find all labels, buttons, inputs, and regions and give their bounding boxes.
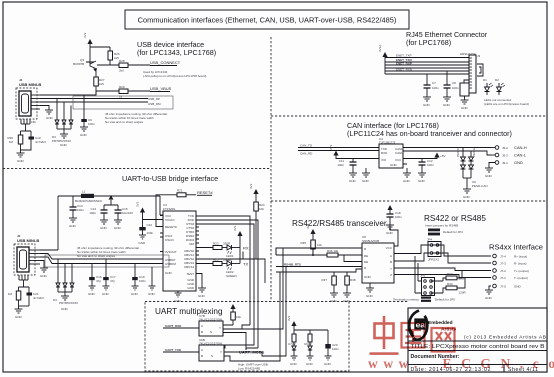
svg-text:ENET_RXN: ENET_RXN bbox=[396, 67, 412, 71]
shield stub J2 bbox=[19, 275, 28, 287]
svg-text:CAN_TD: CAN_TD bbox=[300, 144, 313, 148]
svg-text:Y: Y bbox=[220, 350, 222, 354]
svg-text:GND: GND bbox=[165, 271, 173, 275]
wire TEST to gnd bbox=[196, 274, 202, 289]
svg-text:GND: GND bbox=[114, 226, 122, 230]
svg-text:R+ (input): R+ (input) bbox=[514, 255, 527, 259]
svg-text:A: A bbox=[201, 324, 203, 328]
power 3V3 led bbox=[233, 225, 243, 247]
svg-text:J7-3: J7-3 bbox=[500, 262, 506, 266]
svg-text:GND: GND bbox=[69, 224, 77, 228]
wire ENET_RXN bbox=[385, 67, 469, 69]
title row bbox=[411, 344, 546, 350]
svg-text:CAN_RD: CAN_RD bbox=[300, 152, 313, 156]
svg-text:GND: GND bbox=[148, 292, 156, 296]
svg-text:3V3: 3V3 bbox=[329, 144, 333, 150]
svg-text:3V3: 3V3 bbox=[136, 201, 140, 207]
svg-text:BLM21PG600SN1D: BLM21PG600SN1D bbox=[75, 199, 103, 203]
svg-text:100n: 100n bbox=[89, 211, 96, 215]
watermark url text bbox=[368, 356, 554, 371]
power 3V3 mux bbox=[230, 304, 235, 312]
svg-text:GND: GND bbox=[40, 274, 48, 278]
note impedance routing bbox=[105, 112, 168, 124]
svg-text:R33: R33 bbox=[447, 272, 453, 276]
char wang bbox=[432, 328, 455, 352]
svg-text:100n: 100n bbox=[432, 86, 439, 90]
wire pin4 to gnd bbox=[40, 106, 49, 111]
svg-text:GND: GND bbox=[485, 296, 493, 300]
power 5V can bbox=[403, 153, 445, 159]
wire B to JP4 bbox=[394, 253, 438, 261]
node RS485_RTS bbox=[276, 263, 362, 267]
svg-text:U6A2: U6A2 bbox=[304, 342, 312, 346]
wire shield split J2 bbox=[19, 287, 30, 291]
capacitor C7 bbox=[424, 74, 440, 97]
wire mux2 connections bbox=[224, 272, 280, 361]
svg-text:R28: R28 bbox=[119, 59, 125, 63]
wire UART_RXD bbox=[163, 324, 199, 328]
svg-text:GND: GND bbox=[17, 159, 25, 163]
svg-text:4n7/2kV: 4n7/2kV bbox=[35, 140, 46, 144]
resistor R35 bbox=[300, 240, 322, 255]
node USB_VBUS bbox=[150, 86, 172, 92]
svg-text:GND: GND bbox=[390, 163, 398, 167]
capacitor C14 bbox=[89, 205, 107, 220]
resistor R27 bbox=[94, 69, 105, 95]
resistor R28 bbox=[119, 59, 128, 73]
resistor R33 termination bbox=[443, 271, 467, 282]
svg-text:100n: 100n bbox=[77, 208, 84, 212]
char guo bbox=[402, 323, 425, 348]
svg-text:No vias and no sharp angles: No vias and no sharp angles bbox=[77, 254, 116, 258]
ground C7 bbox=[423, 97, 431, 107]
svg-text:FT232RL: FT232RL bbox=[163, 207, 176, 211]
wire vcc to U8 bbox=[390, 225, 398, 246]
ground C8 bbox=[443, 97, 451, 107]
svg-text:GND: GND bbox=[60, 143, 68, 147]
svg-text:GND: GND bbox=[349, 179, 357, 183]
svg-text:GND: GND bbox=[386, 231, 394, 235]
ground U8 bbox=[366, 283, 374, 298]
section title RS422 or RS485 bbox=[424, 214, 486, 228]
ground C11 bbox=[349, 173, 357, 183]
watermark bbox=[370, 316, 455, 355]
svg-text:T- (output): T- (output) bbox=[514, 276, 528, 280]
svg-text:47p: 47p bbox=[96, 279, 101, 283]
capacitor C12 bbox=[419, 159, 435, 174]
power 3V3 pullups bbox=[287, 315, 328, 330]
svg-text:VCCIO: VCCIO bbox=[165, 218, 175, 222]
ground C12 bbox=[418, 173, 426, 183]
wire JP5 row1 bbox=[418, 263, 443, 281]
resistor R26 bbox=[90, 47, 120, 65]
svg-text:3V3: 3V3 bbox=[233, 225, 237, 231]
svg-text:J5-3: J5-3 bbox=[502, 154, 508, 158]
svg-text:Y: Y bbox=[390, 267, 392, 271]
svg-text:R34: R34 bbox=[447, 282, 453, 286]
header pin J5-2 CAN-H bbox=[491, 145, 527, 150]
ground J5 bbox=[485, 168, 493, 178]
svg-text:100n: 100n bbox=[147, 231, 154, 235]
wire R+ output bbox=[438, 245, 492, 256]
svg-text:S: S bbox=[210, 330, 212, 334]
svg-text:100n: 100n bbox=[332, 347, 339, 351]
svg-text:Z: Z bbox=[390, 273, 392, 277]
svg-text:3V3: 3V3 bbox=[83, 32, 87, 38]
capacitor C8 bbox=[444, 71, 460, 97]
resistor network U7A bbox=[288, 330, 296, 356]
power vcc pullup cbus bbox=[249, 183, 259, 202]
svg-text:Insert jumpers for RS485: Insert jumpers for RS485 bbox=[425, 224, 459, 228]
wire D+ to bus bbox=[40, 101, 76, 103]
FTDI U3 FT232RL bbox=[160, 203, 199, 291]
ground U6A bbox=[306, 356, 314, 366]
impedance matched bus box bbox=[73, 96, 173, 109]
svg-text:(LEDs are on LPCXpresso board): (LEDs are on LPCXpresso board) bbox=[484, 102, 529, 106]
svg-text:R29: R29 bbox=[119, 85, 125, 89]
wire mux1 inputs bbox=[223, 325, 250, 350]
svg-text:B: B bbox=[390, 260, 392, 264]
capacitor C22 bbox=[139, 223, 153, 235]
svg-text:E C G N . c o m: E C G N . c o m bbox=[443, 356, 554, 371]
svg-text:RS422 or RS485: RS422 or RS485 bbox=[424, 214, 486, 223]
power 3V3 can bbox=[329, 144, 379, 158]
section divider horizontal usb/uart bbox=[3, 168, 271, 170]
svg-text:UART-to-USB bridge interface: UART-to-USB bridge interface bbox=[122, 174, 218, 183]
resistor R22 bbox=[8, 291, 21, 306]
capacitor C10 bbox=[21, 135, 47, 150]
ground R38 bbox=[343, 293, 351, 303]
note mux modes bbox=[238, 363, 268, 371]
svg-text:J7-4: J7-4 bbox=[500, 255, 506, 259]
mux U6B bbox=[199, 338, 224, 361]
wire R- output bbox=[438, 253, 492, 263]
svg-text:RI#: RI# bbox=[189, 242, 194, 246]
ground U4 pin8 bbox=[403, 168, 411, 183]
wire D- to bus bbox=[40, 98, 76, 100]
svg-text:1M: 1M bbox=[9, 140, 14, 144]
svg-text:UART_TXD: UART_TXD bbox=[165, 348, 182, 352]
svg-text:Low: RS422/485: Low: RS422/485 bbox=[238, 367, 261, 371]
wire UART_TXD bbox=[163, 348, 199, 352]
svg-text:GND: GND bbox=[485, 174, 493, 178]
svg-text:PRTR5V0X2X: PRTR5V0X2X bbox=[59, 301, 78, 305]
svg-text:PESD1: PESD1 bbox=[456, 147, 460, 157]
svg-text:J7-2: J7-2 bbox=[500, 269, 506, 273]
ground J2 bbox=[40, 268, 48, 278]
svg-text:D1: D1 bbox=[483, 78, 487, 82]
svg-text:GND: GND bbox=[139, 241, 147, 245]
ground C18 bbox=[386, 225, 394, 235]
wire JP5 row3 bbox=[415, 256, 443, 293]
ferrite bead L1 bbox=[58, 190, 163, 216]
wire usb dp to chip bbox=[40, 254, 163, 260]
resistor R37 bbox=[321, 272, 336, 293]
svg-text:1M: 1M bbox=[8, 292, 13, 296]
wire ENET_TXN bbox=[385, 58, 469, 62]
capacitor C20 bbox=[325, 330, 339, 356]
svg-text:GND: GND bbox=[198, 294, 206, 298]
svg-text:3V3: 3V3 bbox=[249, 183, 253, 189]
ground shield J2 bbox=[15, 306, 23, 319]
wire cbus2 run bbox=[196, 240, 265, 283]
svg-text:4n7/2kV: 4n7/2kV bbox=[33, 296, 44, 300]
wire VBUS run bbox=[96, 90, 119, 92]
svg-text:3V3OUT: 3V3OUT bbox=[165, 250, 177, 254]
wire VBUS from pin1 bbox=[40, 91, 96, 95]
resistor R36 inline bbox=[327, 249, 362, 262]
LED D1 bbox=[483, 78, 493, 95]
svg-text:No vias and no sharp angles: No vias and no sharp angles bbox=[105, 120, 144, 124]
title banner box bbox=[125, 10, 409, 29]
capacitor C17 bbox=[103, 259, 116, 286]
svg-text:BC807B: BC807B bbox=[73, 62, 84, 66]
svg-text:OSCO: OSCO bbox=[165, 238, 175, 242]
svg-text:SN65HVD35: SN65HVD35 bbox=[362, 239, 380, 243]
wire CANL to header bbox=[403, 151, 491, 155]
svg-text:R36 10k: R36 10k bbox=[327, 249, 339, 253]
resistor R30 bbox=[7, 135, 22, 150]
wire Z to T- bbox=[394, 275, 491, 278]
svg-text:R37: R37 bbox=[321, 278, 327, 282]
svg-text:(LPC11C24 has on-board trancei: (LPC11C24 has on-board tranceiver and co… bbox=[347, 129, 512, 138]
section title RS4xx Interface bbox=[489, 243, 543, 252]
svg-text:USB MINI-B: USB MINI-B bbox=[19, 82, 41, 87]
jumper header JP4 bbox=[427, 238, 441, 262]
ground C19 bbox=[131, 286, 139, 296]
svg-text:GND: GND bbox=[46, 116, 54, 120]
resistor network U6A bbox=[304, 330, 312, 356]
title block frame bbox=[408, 308, 547, 372]
svg-text:120R: 120R bbox=[459, 291, 467, 295]
svg-text:Y: Y bbox=[219, 326, 221, 330]
shield stub of J4 bbox=[21, 119, 36, 131]
svg-text:w w w .: w w w . bbox=[368, 356, 418, 371]
svg-text:UART_RXD: UART_RXD bbox=[165, 324, 182, 328]
header pin J7-5 GND bbox=[489, 284, 522, 290]
section title USB device interface bbox=[137, 40, 216, 57]
svg-text:B: B bbox=[201, 330, 203, 334]
ground ESD bbox=[60, 134, 68, 147]
ground shield bbox=[17, 150, 25, 163]
svg-text:GND: GND bbox=[324, 362, 332, 366]
wire rs485 rx bbox=[276, 247, 362, 249]
svg-text:RXD: RXD bbox=[381, 151, 388, 155]
svg-text:10k: 10k bbox=[317, 243, 322, 247]
section title CAN interface bbox=[347, 121, 512, 138]
svg-text:RS485_RTS: RS485_RTS bbox=[284, 263, 301, 267]
wire Y to T+ bbox=[394, 268, 491, 271]
svg-text:PESD-CAN: PESD-CAN bbox=[472, 184, 488, 188]
LED D2 bbox=[495, 78, 505, 95]
ground U7A bbox=[290, 356, 298, 366]
svg-text:J5-2: J5-2 bbox=[502, 146, 508, 150]
LED LED1 red bbox=[226, 245, 249, 262]
svg-text:R- (input): R- (input) bbox=[514, 262, 527, 266]
svg-text:RE: RE bbox=[364, 254, 368, 258]
TVS common node U6 PESD-CAN bbox=[463, 178, 488, 189]
svg-text:VCC: VCC bbox=[386, 246, 393, 250]
svg-text:Termination resistor: Termination resistor bbox=[393, 298, 419, 302]
svg-text:15k: 15k bbox=[31, 120, 36, 124]
capacitor C13 bbox=[70, 196, 85, 218]
section title UART multiplexing bbox=[155, 307, 223, 316]
capacitor C15 bbox=[115, 205, 134, 220]
section title RJ45 Ethernet Connector bbox=[406, 30, 488, 47]
svg-text:3V3: 3V3 bbox=[306, 223, 310, 229]
transistor Q3 bbox=[73, 58, 97, 72]
svg-text:100n: 100n bbox=[88, 122, 95, 126]
note impedance routing uart bbox=[77, 246, 140, 258]
resistor R39 bbox=[231, 312, 242, 325]
ground connector bbox=[45, 110, 54, 120]
svg-text:CANL: CANL bbox=[395, 151, 403, 155]
wire collector to R28 bbox=[97, 64, 119, 66]
svg-text:T+ (output): T+ (output) bbox=[514, 269, 529, 273]
capacitor C11 bbox=[337, 159, 356, 174]
svg-text:GND: GND bbox=[330, 299, 338, 303]
ground C17 bbox=[102, 286, 110, 296]
svg-text:(c) 2013 Embedded Artists AB: (c) 2013 Embedded Artists AB bbox=[464, 335, 546, 341]
resistor R38 bbox=[345, 272, 356, 293]
ground U3 left pin bbox=[174, 291, 182, 303]
svg-text:JP4: JP4 bbox=[427, 238, 433, 242]
wire ENET_TXP bbox=[385, 54, 469, 58]
svg-text:PESD2: PESD2 bbox=[472, 147, 476, 157]
svg-text:10k: 10k bbox=[259, 207, 264, 211]
svg-text:USB MINI-B: USB MINI-B bbox=[17, 238, 39, 243]
wire vbus pin bbox=[40, 249, 58, 251]
svg-text:RESET#: RESET# bbox=[197, 190, 213, 195]
power 3V3A arrow bbox=[378, 45, 388, 74]
svg-text:GND: GND bbox=[187, 286, 195, 290]
wire 3v3out run bbox=[104, 195, 118, 205]
svg-text:A: A bbox=[390, 254, 392, 258]
svg-text:CBUS4: CBUS4 bbox=[184, 265, 194, 269]
section divider horizontal rj45/can bbox=[271, 115, 547, 117]
wire D input bbox=[276, 269, 362, 272]
svg-text:Communication interfaces (Ethe: Communication interfaces (Ethernet, CAN,… bbox=[138, 16, 397, 25]
copyright line bbox=[464, 335, 546, 341]
ground J7 bbox=[485, 290, 493, 300]
svg-text:(for LPC1768): (for LPC1768) bbox=[406, 38, 451, 47]
svg-text:D4: D4 bbox=[53, 298, 57, 302]
svg-text:ENET_RXP: ENET_RXP bbox=[396, 62, 412, 66]
ground R37 bbox=[330, 293, 338, 303]
jumper header JP5 bbox=[420, 274, 435, 296]
svg-text:J3: J3 bbox=[477, 54, 481, 58]
node UART_MODE bbox=[234, 267, 286, 357]
svg-text:GND: GND bbox=[461, 106, 469, 110]
logo Embedded Artists bbox=[409, 311, 456, 340]
wire rts to mux bbox=[196, 224, 254, 348]
svg-text:JPR2X2: JPR2X2 bbox=[428, 258, 439, 262]
svg-text:J5-1: J5-1 bbox=[502, 161, 508, 165]
impedance matched bus box uart bbox=[45, 255, 169, 267]
char zhong bbox=[375, 316, 394, 349]
svg-text:10k: 10k bbox=[236, 315, 241, 319]
svg-text:47p: 47p bbox=[110, 279, 115, 283]
svg-text:A: A bbox=[201, 348, 203, 352]
capacitor C18 bbox=[387, 205, 403, 225]
svg-text:GND: GND bbox=[423, 103, 431, 107]
svg-text:10u/16V: 10u/16V bbox=[122, 211, 133, 215]
note LEDs not connected bbox=[484, 98, 529, 106]
TVS diode pair left bbox=[456, 147, 466, 178]
ground C16 bbox=[88, 286, 96, 296]
ground TVS bbox=[463, 189, 471, 199]
svg-text:USB_VBUS: USB_VBUS bbox=[150, 86, 172, 91]
svg-text:VIO: VIO bbox=[381, 158, 387, 162]
svg-text:GND: GND bbox=[61, 307, 69, 311]
USB connector J2 bbox=[14, 234, 40, 275]
wire usb dm to chip bbox=[40, 257, 163, 264]
power 3V3 arrow bbox=[83, 32, 93, 62]
svg-text:R35: R35 bbox=[300, 241, 306, 245]
svg-text:TX: TX bbox=[243, 262, 248, 267]
resistor R34 termination bbox=[443, 278, 467, 295]
wire ENET_RXP bbox=[385, 62, 469, 66]
svg-text:GND: GND bbox=[88, 292, 96, 296]
wire CAN_TD bbox=[298, 144, 379, 148]
svg-text:1k: 1k bbox=[119, 95, 123, 99]
USB connector J4 bbox=[16, 78, 41, 119]
svg-text:100n: 100n bbox=[139, 279, 146, 283]
date row bbox=[411, 367, 539, 373]
svg-text:UART multiplexing: UART multiplexing bbox=[155, 307, 223, 316]
resistor R29 bbox=[119, 85, 128, 99]
power 3V3 vccio bbox=[136, 201, 164, 227]
jumper icon JP5 default bbox=[421, 297, 455, 302]
resistor R24 bbox=[254, 202, 265, 240]
header pin J5-3 CAN-L bbox=[491, 153, 527, 158]
svg-text:TEST: TEST bbox=[186, 272, 194, 276]
svg-text:1k5: 1k5 bbox=[99, 82, 104, 86]
svg-text:R38: R38 bbox=[350, 278, 356, 282]
wire ENET_CT bbox=[385, 67, 469, 71]
svg-text:GND: GND bbox=[403, 179, 411, 183]
ESD diode array D4 bbox=[53, 259, 78, 305]
capacitor C19 bbox=[132, 264, 146, 287]
svg-text:JP5: JP5 bbox=[420, 274, 426, 278]
wire CAN_RD bbox=[298, 151, 379, 156]
svg-text:C7: C7 bbox=[432, 81, 436, 85]
wire gnd pin J2 bbox=[40, 261, 44, 269]
wire CANH to header bbox=[403, 147, 491, 149]
svg-text:RS4xx Interface: RS4xx Interface bbox=[489, 243, 543, 252]
svg-text:D2: D2 bbox=[495, 78, 499, 82]
svg-text:B: B bbox=[201, 354, 203, 358]
wire rs485 r out bbox=[223, 248, 283, 329]
svg-text:GND: GND bbox=[100, 226, 108, 230]
wire rxd to mux bbox=[196, 220, 258, 330]
TVS diode pair right bbox=[469, 147, 477, 178]
svg-text:GND: GND bbox=[514, 285, 522, 289]
header pin J5-1 GND bbox=[489, 160, 523, 168]
capacitor C21 bbox=[19, 291, 45, 306]
red bar bbox=[370, 352, 399, 355]
section divider horizontal can/rs422 bbox=[271, 200, 547, 202]
svg-text:GND: GND bbox=[443, 103, 451, 107]
svg-text:GND: GND bbox=[131, 292, 139, 296]
svg-text:R25: R25 bbox=[213, 258, 219, 262]
svg-text:GND: GND bbox=[366, 294, 374, 298]
svg-text:100n: 100n bbox=[395, 215, 402, 219]
svg-text:VCC: VCC bbox=[395, 158, 402, 162]
svg-text:GND: GND bbox=[364, 275, 372, 279]
svg-text:USB_DM: USB_DM bbox=[148, 102, 161, 106]
wire rs485 re de bbox=[276, 254, 327, 256]
